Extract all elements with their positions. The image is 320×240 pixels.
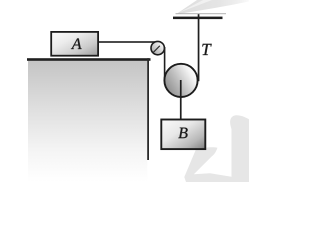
wire rope from A to small pulley (98, 41, 159, 43)
ceiling thick line (173, 17, 223, 20)
label A (71, 38, 82, 49)
watermark bottom-right bar (230, 115, 249, 182)
watermark top-right triangle (176, 0, 249, 14)
label B (178, 128, 187, 139)
watermark fan white streak (179, 0, 212, 13)
table right edge line (147, 58, 149, 160)
wire link from pulley center to block B (180, 80, 182, 120)
block B (161, 120, 205, 150)
wire rope T from ceiling to big pulley (198, 14, 200, 81)
table body (28, 61, 147, 183)
label T (202, 44, 211, 55)
table top edge line (27, 58, 151, 61)
small pulley axle mark (153, 46, 160, 53)
wire rope small pulley to big pulley (164, 47, 166, 81)
block A (51, 32, 98, 56)
big pulley P2 (164, 64, 197, 97)
small pulley P1 (151, 41, 164, 54)
ceiling thin upper line (176, 13, 227, 14)
watermark bottom-right Z swoosh (184, 147, 231, 182)
